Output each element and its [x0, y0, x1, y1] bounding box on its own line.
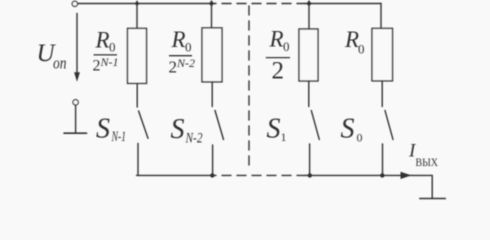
dashed separator line — [248, 6, 250, 170]
svg-text:R: R — [95, 28, 110, 53]
wire branch 2 top — [211, 1, 213, 28]
svg-text:0: 0 — [283, 39, 290, 54]
svg-text:R: R — [171, 27, 186, 52]
svg-text:1: 1 — [281, 130, 287, 144]
wire top bus solid right — [305, 3, 381, 5]
wire R0/2 bottom lead — [308, 81, 310, 107]
wire S(N-1) lower lead — [137, 144, 139, 176]
svg-text:S: S — [96, 114, 110, 145]
switch S(N-1) blade — [139, 111, 148, 138]
resistor R0/2^(N-1) — [128, 28, 147, 83]
svg-text:R: R — [344, 27, 359, 52]
node junction bottom branch 2 — [210, 173, 214, 177]
wire S1 lower lead — [309, 144, 311, 175]
ground terminal circle left — [73, 100, 78, 105]
node junction top branch 1 — [135, 2, 139, 6]
node junction bottom branch 3 — [308, 173, 312, 177]
wire right drop to R0 — [380, 4, 382, 29]
wire branch 3 top — [308, 1, 310, 29]
resistor R0/2^(N-2) — [202, 28, 222, 82]
wire bottom bus dashed middle — [222, 174, 305, 176]
switch S(N-2) blade — [215, 111, 224, 140]
svg-text:2: 2 — [93, 58, 101, 75]
resistor R0 — [372, 28, 393, 81]
svg-text:S: S — [341, 114, 355, 145]
switch S1 blade — [311, 111, 319, 140]
wire bottom bus solid left — [137, 174, 217, 176]
wire R0 bottom lead — [381, 81, 383, 107]
svg-text:оп: оп — [53, 54, 67, 73]
svg-text:N-2: N-2 — [176, 56, 195, 70]
svg-text:0: 0 — [358, 42, 365, 57]
input terminal circle — [72, 1, 77, 6]
svg-text:2: 2 — [169, 58, 178, 77]
svg-text:0: 0 — [185, 40, 192, 55]
Ivyh output arrowhead — [401, 172, 412, 179]
wire Uop arrow line — [76, 14, 78, 75]
svg-text:N-2: N-2 — [185, 131, 203, 147]
ground left bar — [64, 132, 87, 134]
wire R1 bottom lead — [136, 83, 138, 107]
wire S(N-2) lower lead — [212, 145, 214, 175]
switch S0 blade — [385, 111, 393, 140]
node junction bottom branch 4 — [380, 173, 384, 177]
svg-text:N-1: N-1 — [111, 129, 126, 145]
resistor R0/2 — [299, 29, 318, 81]
Uop arrowhead — [74, 72, 80, 82]
svg-text:R: R — [269, 27, 284, 52]
wire S0 lower lead — [382, 144, 384, 175]
svg-text:2: 2 — [272, 58, 285, 85]
wire bottom bus solid right — [305, 174, 432, 176]
svg-text:N-1: N-1 — [100, 55, 119, 69]
node junction top branch 2 — [210, 2, 214, 6]
wire right ground drop — [431, 175, 433, 198]
svg-text:S: S — [171, 114, 185, 145]
ground right bar — [420, 198, 446, 200]
wire top bus dashed middle — [222, 3, 305, 5]
wire top bus solid left — [78, 3, 216, 5]
ground left stem — [75, 105, 77, 133]
svg-text:0: 0 — [357, 131, 363, 145]
svg-text:S: S — [267, 114, 281, 145]
svg-text:ВЫХ: ВЫХ — [416, 157, 439, 169]
wire R2 bottom lead — [211, 82, 213, 107]
node junction top branch 3 — [307, 2, 311, 6]
svg-text:0: 0 — [109, 40, 116, 55]
wire branch 1 top — [136, 1, 138, 28]
